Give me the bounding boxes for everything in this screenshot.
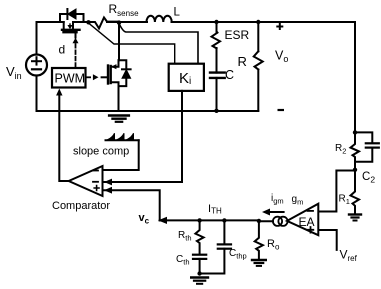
svg-text:EA: EA: [299, 215, 315, 229]
wire top rail left from Vin to PMOS source: [37, 21, 64, 23]
source V_in: [26, 22, 47, 111]
transistor Q1 PMOS high-side switch: [62, 22, 80, 38]
capacitor Cth: [193, 255, 206, 274]
slope comp sawtooth symbol: [106, 133, 139, 140]
wire comparator output up to PWM: [59, 94, 68, 181]
diode D2 body diode of Q2: [119, 60, 131, 86]
node junction dot ITH at Ro branch: [257, 219, 261, 223]
svg-text:slope comp: slope comp: [73, 146, 129, 158]
arrow on ITH wire pointing left: [158, 217, 167, 224]
inductor L: [147, 16, 172, 22]
svg-text:L: L: [174, 7, 181, 19]
svg-text:R: R: [238, 54, 247, 69]
svg-text:ESR: ESR: [225, 28, 250, 42]
arrow into PWM bottom: [56, 89, 62, 96]
arrow NMOS drain arrow left: [111, 64, 116, 69]
resistor Rsense: [89, 18, 119, 29]
wire top rail inductor to right corner: [172, 21, 356, 23]
wire ITH compensation rail: [160, 219, 259, 221]
node junction dot ITH at Rth branch: [197, 218, 201, 222]
comparator U1: [69, 166, 103, 196]
label minus Vo: [278, 109, 285, 111]
wire bottom ground rail: [37, 110, 259, 112]
svg-text:PWM: PWM: [55, 72, 86, 86]
ground GND3 below Rth/Cth: [191, 278, 208, 284]
node junction dot top rail at R branch: [256, 20, 260, 24]
node junction dot divider tap: [353, 168, 357, 172]
wire slope comp to comparator top input: [103, 140, 139, 170]
node junction dot Rth/Cthp bottom join: [197, 271, 201, 275]
block PWM: [52, 68, 86, 88]
wire right vertical down to R2: [354, 22, 356, 132]
wire NMOS drain from switch node: [118, 23, 120, 61]
node SW junction dot switch node: [117, 20, 121, 24]
resistor R load branch: [254, 22, 263, 111]
ground GND4 below Ro: [252, 260, 266, 266]
svg-text:C: C: [225, 68, 234, 82]
wire EA output to ITH node: [259, 220, 273, 222]
capacitor Cthp: [200, 220, 231, 273]
arrow dashed line arrowhead up at PMOS gate: [73, 38, 79, 43]
node junction dot R2 top: [353, 130, 357, 134]
current source i_gm EA output: [273, 217, 288, 226]
op-amp EA error amplifier: [287, 204, 318, 236]
wire top rail from PMOS drain to Rsense: [73, 21, 89, 23]
ground GND2 below R1: [349, 215, 361, 221]
wire vc from ITH up to comparator plus input: [105, 190, 160, 220]
wire EA non-inverting input to Vref: [319, 230, 337, 250]
resistor Ro: [255, 221, 263, 258]
resistor R2 on right vertical: [351, 132, 360, 170]
arrow into comparator plus input: [104, 187, 112, 194]
node junction dot ITH at Cthp branch: [222, 218, 226, 222]
capacitor branch ESR + C output cap: [210, 22, 225, 111]
wire dashed duty line d from PWM to PMOS gate: [75, 44, 77, 68]
resistor R1: [351, 171, 360, 214]
node junction dot top rail at ESR branch: [214, 20, 218, 24]
arrow i_gm direction arrow: [267, 211, 284, 213]
node junction dot bottom rail at ESR/C branch: [214, 109, 218, 113]
block Ki current sense gain: [169, 64, 204, 91]
resistor Rth: [195, 220, 203, 254]
wire tap to EA inverting input: [319, 171, 356, 212]
wire dashed arrow PWM to NMOS gate: [87, 76, 93, 78]
arrow into comparator middle input: [104, 179, 112, 186]
wire sense line A from left of Rsense to Ki: [89, 23, 175, 64]
transistor Q2 NMOS low-side switch: [102, 60, 119, 111]
svg-text:Comparator: Comparator: [52, 200, 110, 212]
capacitor C2 parallel with R2: [355, 132, 379, 161]
label plus Vo: [276, 23, 283, 30]
node A junction dot left sense tap: [86, 20, 90, 24]
wire sense line B from switch node to Ki: [119, 24, 198, 64]
arrow PMOS source arrow down: [67, 25, 72, 29]
arrow dashed arrowhead right at NMOS gate: [93, 74, 99, 80]
diode D1 body diode of Q1: [60, 9, 84, 22]
svg-text:d: d: [59, 43, 66, 57]
wire Ki output down and left to comparator middle input: [105, 91, 183, 182]
wire Rsense to inductor: [107, 21, 147, 23]
ground GND1 at NMOS source: [109, 116, 129, 122]
